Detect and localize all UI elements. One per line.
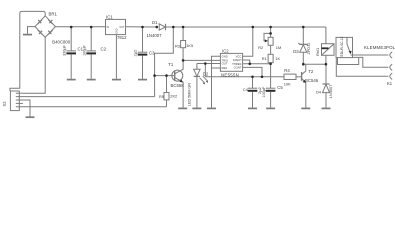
connector X2 bbox=[10, 91, 166, 117]
svg-text:EDUR-SC-12: EDUR-SC-12 bbox=[340, 37, 344, 57]
555 GND and RES wires to ground bbox=[212, 56, 221, 107]
resistor R1 bbox=[268, 54, 273, 64]
wire AC1: bridge top vertex up and left, down left side bbox=[10, 11, 45, 91]
svg-text:GND: GND bbox=[115, 28, 118, 34]
trimmer R2 bbox=[264, 27, 273, 54]
svg-text:CONT: CONT bbox=[234, 66, 242, 70]
svg-text:NE555N: NE555N bbox=[221, 72, 239, 77]
wire rail to T1 base zigzag bbox=[155, 27, 174, 97]
CONT wire bbox=[243, 67, 262, 76]
svg-text:D1: D1 bbox=[152, 20, 158, 25]
bridge rectifier BR1 bbox=[35, 16, 55, 38]
DISCH jog bbox=[243, 60, 250, 64]
VCC wire bbox=[243, 27, 253, 56]
voltage regulator IC1 bbox=[106, 19, 126, 79]
svg-text:2µ2: 2µ2 bbox=[133, 49, 138, 57]
svg-text:RES: RES bbox=[222, 66, 228, 70]
svg-text:Rel1: Rel1 bbox=[315, 47, 320, 56]
svg-text:THRES: THRES bbox=[232, 62, 241, 66]
transistor T1 bbox=[172, 60, 183, 107]
ground LED bbox=[192, 107, 201, 109]
THRES line bbox=[243, 63, 271, 65]
svg-text:C3: C3 bbox=[149, 51, 155, 56]
svg-text:D3: D3 bbox=[293, 49, 299, 54]
pin names IC1 bbox=[107, 26, 125, 34]
terminal wires to KLEMME3POL bbox=[351, 54, 389, 56]
main +rail y=27 bbox=[55, 26, 326, 28]
capacitor C2 bbox=[86, 27, 96, 80]
svg-text:IN: IN bbox=[107, 26, 110, 29]
ground at bridge DC minus bbox=[28, 27, 36, 34]
svg-text:R4: R4 bbox=[284, 68, 290, 73]
relay contact box bbox=[336, 37, 359, 64]
svg-text:330µF: 330µF bbox=[62, 44, 66, 56]
svg-text:GND: GND bbox=[222, 54, 228, 58]
svg-text:1N4007: 1N4007 bbox=[328, 84, 333, 99]
svg-text:DISCH: DISCH bbox=[233, 58, 242, 62]
capacitor C5 bbox=[266, 64, 276, 109]
capacitor C4 bbox=[248, 77, 258, 109]
svg-text:R1: R1 bbox=[262, 56, 267, 61]
svg-text:IC1: IC1 bbox=[106, 15, 113, 20]
svg-text:T1: T1 bbox=[168, 62, 174, 67]
svg-text:LED 5MM GN: LED 5MM GN bbox=[188, 83, 192, 106]
resistor R5 bbox=[164, 76, 169, 107]
T1 base wire bbox=[155, 75, 175, 77]
svg-text:VCC: VCC bbox=[236, 54, 242, 58]
svg-text:B40C800: B40C800 bbox=[52, 39, 71, 44]
svg-text:KLEMME3POL: KLEMME3POL bbox=[364, 45, 395, 50]
terminal arcs bbox=[390, 52, 392, 58]
svg-text:R3: R3 bbox=[175, 43, 180, 48]
resistor R4 bbox=[284, 74, 302, 79]
svg-text:X2: X2 bbox=[2, 101, 7, 107]
wire AC2: bridge bottom vertex down, left to X2 pin1 bbox=[23, 37, 45, 93]
svg-text:BR1: BR1 bbox=[49, 11, 58, 16]
svg-text:D4: D4 bbox=[316, 89, 322, 94]
timer IC2 NE555 box bbox=[220, 53, 242, 71]
svg-text:R5: R5 bbox=[159, 94, 164, 99]
svg-text:R2: R2 bbox=[258, 45, 263, 50]
OUT line to LED bbox=[197, 63, 221, 65]
diode D1 bbox=[159, 24, 165, 30]
LED D2 bbox=[194, 64, 208, 108]
svg-text:C4: C4 bbox=[243, 87, 249, 92]
junction dots bbox=[70, 26, 327, 78]
svg-text:BC546: BC546 bbox=[305, 78, 319, 83]
svg-text:BC558: BC558 bbox=[171, 83, 185, 88]
svg-text:C2: C2 bbox=[101, 46, 107, 51]
riser OUT to output line bbox=[204, 64, 206, 77]
ground 555 bbox=[207, 107, 216, 109]
transistor T2 bbox=[302, 64, 306, 107]
relay REL1 coil box bbox=[322, 27, 335, 64]
svg-text:C5: C5 bbox=[277, 85, 283, 90]
svg-text:1N4007: 1N4007 bbox=[147, 33, 163, 38]
capacitor C1 bbox=[66, 27, 76, 80]
svg-text:10K: 10K bbox=[284, 82, 291, 87]
diode D4 bbox=[323, 64, 330, 107]
svg-text:100µF: 100µF bbox=[82, 44, 86, 56]
svg-text:1K: 1K bbox=[275, 56, 280, 61]
TRIG line from T1 collector bbox=[183, 59, 220, 61]
output line to R4 bbox=[205, 76, 283, 78]
svg-text:ZPD12: ZPD12 bbox=[307, 43, 311, 55]
ground D4 bbox=[322, 107, 331, 109]
svg-text:K1: K1 bbox=[387, 81, 393, 86]
capacitor C3 bbox=[138, 27, 148, 80]
svg-text:IC2: IC2 bbox=[222, 48, 229, 53]
svg-text:1K5: 1K5 bbox=[186, 43, 193, 48]
svg-text:OUT: OUT bbox=[119, 26, 125, 29]
resistor R3 bbox=[181, 27, 186, 60]
svg-text:7812: 7812 bbox=[117, 35, 127, 40]
svg-text:2K2: 2K2 bbox=[170, 94, 177, 99]
ground under X2 bbox=[26, 116, 35, 118]
ground T2 emitter bbox=[301, 107, 310, 109]
node line relay coil / T2 / D4 bbox=[303, 63, 326, 65]
svg-text:1M: 1M bbox=[276, 45, 281, 50]
svg-text:T2: T2 bbox=[308, 69, 314, 74]
svg-text:100µF: 100µF bbox=[262, 86, 266, 98]
svg-text:OUT: OUT bbox=[222, 62, 228, 66]
ground T1 emitter bbox=[178, 107, 187, 109]
svg-text:D2: D2 bbox=[203, 71, 209, 76]
555 pin names bbox=[222, 54, 242, 70]
zener diode D3 bbox=[298, 27, 308, 64]
